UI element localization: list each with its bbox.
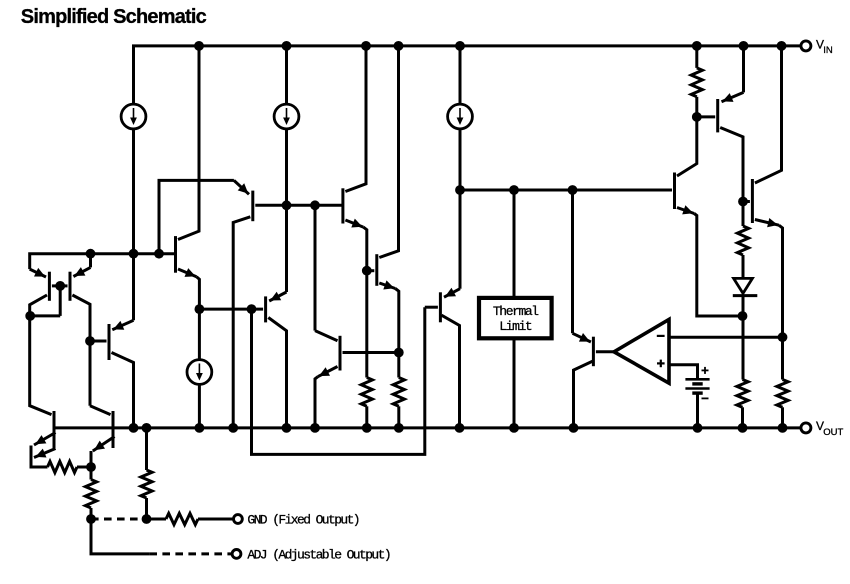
svg-text:Simplified Schematic: Simplified Schematic [21,6,207,28]
svg-text:ADJ (Adjustable Output): ADJ (Adjustable Output) [247,547,390,562]
svg-text:GND (Fixed Output): GND (Fixed Output) [247,513,359,528]
svg-text:Thermal: Thermal [493,304,539,319]
svg-text:OUT: OUT [823,427,843,438]
svg-text:Limit: Limit [499,319,532,334]
svg-text:IN: IN [823,45,833,56]
